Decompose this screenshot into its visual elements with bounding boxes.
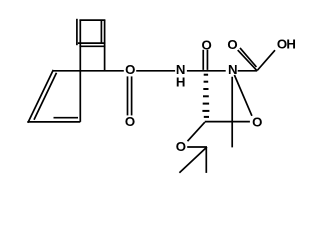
amide C=O double bond (up): [202, 50, 204, 70]
top square ring: top edge: [79, 19, 105, 21]
hashed wedge dashes: [202, 75, 209, 117]
double bond horizontal pair between squares: [78, 42, 106, 44]
right vertical: square right side down to chain: [104, 20, 106, 71]
svg-text:H: H: [286, 37, 296, 52]
left vertical: square left side down to bottom ring corner: [79, 20, 81, 122]
svg-text:N: N: [228, 62, 238, 77]
ether O to isopropyl C: [187, 146, 207, 148]
top square ring: outer-left double bond line: [76, 19, 78, 45]
svg-text:O: O: [125, 114, 135, 129]
bottom-left trapezoid ring: bottom edge: [27, 121, 80, 123]
main chain: ester O to NH: [136, 70, 175, 72]
hash C to ether O diagonal: [188, 122, 205, 141]
acid C=O double bond diagonals: [238, 50, 257, 71]
svg-text:O: O: [252, 115, 262, 130]
svg-text:O: O: [227, 37, 237, 52]
bottom-left trapezoid ring: left inner double bond diagonal: [34, 73, 57, 120]
bottom-left trapezoid ring: left outer diagonal: [28, 70, 53, 123]
ring C horizontal bond (hash C - ring C - ring O): [205, 121, 250, 123]
top square ring: inner-right double bond line: [100, 21, 102, 44]
svg-text:O: O: [201, 37, 211, 52]
main chain: NH to ring N (through carbamate C): [187, 70, 226, 72]
ring N to acid C: [238, 70, 258, 72]
carbamate C=O double bond (down from ester O): [127, 76, 129, 115]
svg-text:O: O: [176, 139, 186, 154]
svg-text:O: O: [125, 62, 135, 77]
N-C vertical bond + methyl below ring C: [231, 77, 233, 148]
svg-text:H: H: [176, 74, 186, 89]
isopropyl C methyl vertical: [205, 147, 207, 173]
main chain: C9 to ester O: [53, 70, 124, 72]
N to ring O diagonal: [234, 75, 252, 116]
bottom-left trapezoid ring: inner bottom double bond line: [54, 117, 79, 119]
isopropyl C methyl diagonal: [179, 147, 207, 173]
acid C-OH diagonal: [257, 50, 275, 70]
